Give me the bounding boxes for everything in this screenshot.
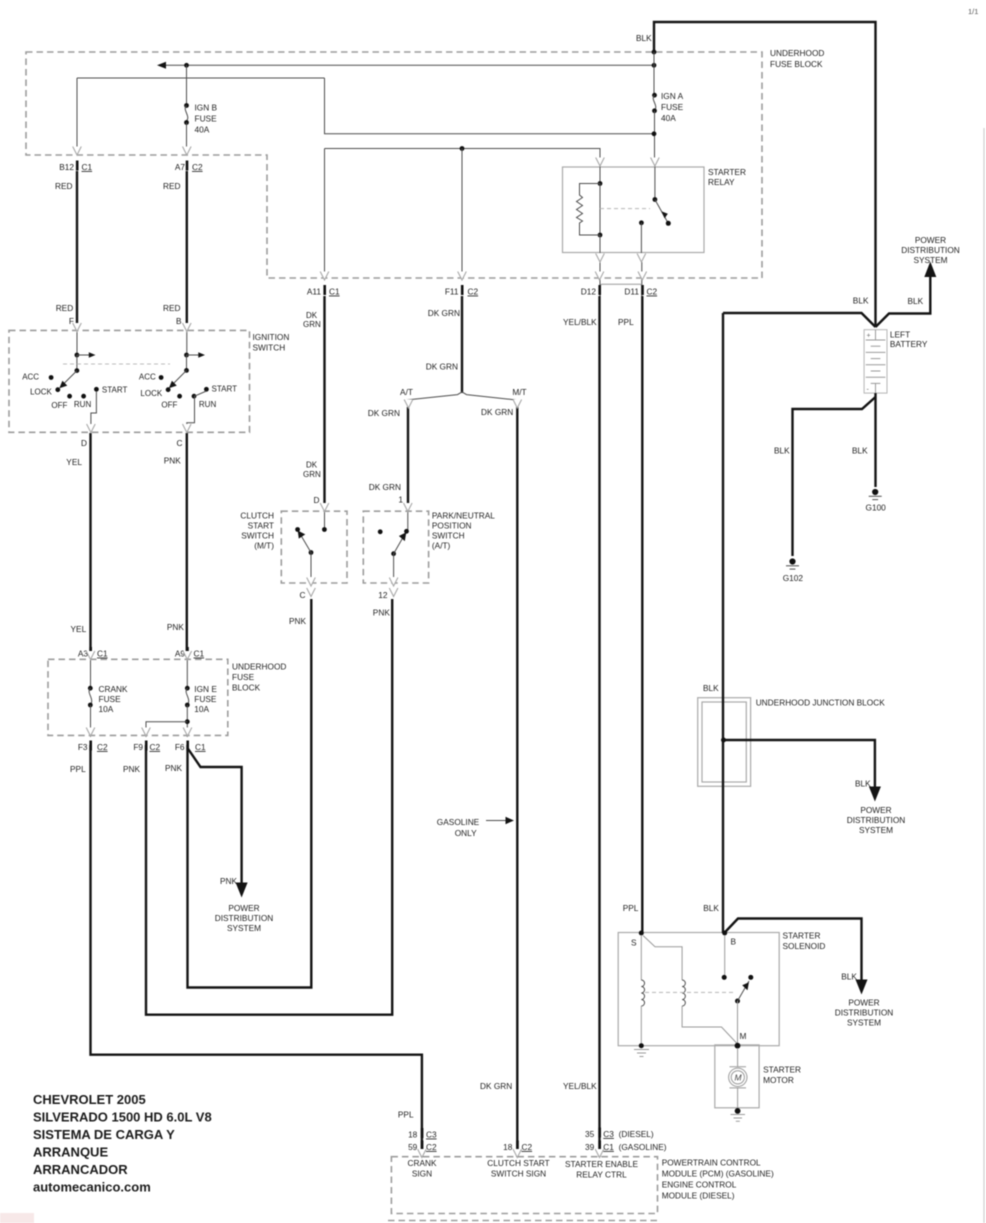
- solenoid ground (S coil): [639, 1043, 644, 1048]
- node BLK feed on dashed edge: [652, 50, 657, 55]
- svg-text:RED: RED: [163, 303, 181, 313]
- node feed bus tap: [652, 63, 657, 68]
- arrow M/T tip: [513, 400, 522, 409]
- svg-text:PARK/NEUTRAL: PARK/NEUTRAL: [432, 511, 495, 521]
- arrow A/T tip: [404, 400, 413, 409]
- svg-text:ENGINE CONTROL: ENGINE CONTROL: [662, 1180, 737, 1190]
- svg-text:STARTER: STARTER: [708, 167, 746, 177]
- arrow PCM crank sign entry: [418, 1149, 427, 1158]
- solenoid B terminal node: [722, 931, 727, 936]
- terminal F11 C2: [445, 285, 479, 297]
- svg-text:BLK: BLK: [841, 972, 857, 982]
- arrow F6 exit: [183, 728, 192, 737]
- wire YEL ignition D to fuse A3: [89, 433, 91, 652]
- svg-text:C2: C2: [426, 1142, 437, 1152]
- wire RED B12 to ignition F: [76, 171, 78, 324]
- svg-text:CRANK: CRANK: [407, 1158, 437, 1168]
- bottom-left artifact: [0, 1213, 34, 1223]
- svg-text:12: 12: [378, 590, 388, 600]
- svg-text:DK GRN: DK GRN: [480, 1081, 512, 1091]
- park/neutral position switch box (A/T): [363, 511, 428, 583]
- svg-text:DK GRN: DK GRN: [368, 408, 400, 418]
- svg-text:RED: RED: [56, 303, 74, 313]
- arrow A3 entry: [86, 651, 95, 660]
- svg-text:BLK: BLK: [908, 296, 924, 306]
- svg-text:A7: A7: [175, 162, 186, 172]
- svg-text:BLK: BLK: [855, 779, 871, 789]
- svg-text:YEL: YEL: [66, 457, 82, 467]
- wire BLK battery feed (top): [654, 22, 876, 327]
- svg-text:BLK: BLK: [703, 903, 719, 913]
- svg-text:C2: C2: [468, 287, 479, 297]
- svg-text:PNK: PNK: [167, 622, 185, 632]
- svg-text:C2: C2: [522, 1142, 533, 1152]
- arrow clutch D entry: [320, 503, 329, 512]
- svg-text:D12: D12: [581, 287, 597, 297]
- wire DK GRN F11 down to A/T M/T split: [461, 296, 463, 393]
- svg-text:C1: C1: [82, 162, 93, 172]
- svg-text:BLK: BLK: [774, 446, 790, 456]
- svg-text:G100: G100: [866, 503, 887, 513]
- svg-text:M: M: [735, 1073, 743, 1083]
- svg-text:C2: C2: [97, 742, 108, 752]
- svg-text:SYSTEM: SYSTEM: [227, 923, 261, 933]
- svg-text:DK GRN: DK GRN: [428, 308, 460, 318]
- wire PNK F9 to park/neutral 12: [146, 599, 392, 1015]
- arrow F11 exit: [458, 272, 467, 281]
- svg-text:FUSE: FUSE: [99, 694, 122, 704]
- svg-text:PNK: PNK: [123, 764, 141, 774]
- svg-text:(M/T): (M/T): [254, 541, 274, 551]
- svg-text:PPL: PPL: [398, 1110, 414, 1120]
- svg-text:CLUTCH START: CLUTCH START: [487, 1158, 549, 1168]
- svg-text:PNK: PNK: [373, 608, 391, 618]
- node junction block tap: [721, 738, 726, 743]
- svg-text:DISTRIBUTION: DISTRIBUTION: [215, 913, 274, 923]
- svg-text:CRANK: CRANK: [99, 684, 129, 694]
- svg-text:DK: DK: [306, 311, 318, 320]
- svg-text:SISTEMA DE CARGA Y: SISTEMA DE CARGA Y: [33, 1127, 175, 1142]
- wire BLK bus to battery positive (left): [723, 313, 876, 327]
- relay pins through boundary: [599, 262, 601, 296]
- svg-text:SYSTEM: SYSTEM: [859, 825, 893, 835]
- svg-text:C: C: [177, 438, 183, 448]
- ground G102: [783, 558, 804, 583]
- arrow ignition F entry: [73, 323, 82, 332]
- svg-text:BLK: BLK: [703, 683, 719, 693]
- terminal A9 C1: [175, 647, 205, 659]
- terminal 18 C2 (PCM middle): [503, 1141, 532, 1153]
- svg-text:RUN: RUN: [199, 400, 217, 409]
- arrow ignition B entry: [183, 323, 192, 332]
- arrow ignition D exit: [87, 424, 96, 433]
- svg-text:LOCK: LOCK: [140, 389, 162, 398]
- relay switch blade: [655, 200, 668, 223]
- wire BLK battery to power distribution (up arrow): [876, 276, 931, 327]
- starter relay box: [563, 167, 705, 253]
- svg-text:IGN E: IGN E: [194, 684, 217, 694]
- wire BLK battery negative to G100: [874, 393, 876, 487]
- svg-text:SYSTEM: SYSTEM: [913, 255, 947, 265]
- svg-text:DISTRIBUTION: DISTRIBUTION: [847, 815, 906, 825]
- arrow relay pin 85 bottom: [596, 254, 605, 263]
- svg-text:SWITCH: SWITCH: [432, 531, 465, 541]
- svg-text:STARTER: STARTER: [783, 931, 821, 941]
- solenoid contact from B: [724, 935, 726, 977]
- terminal 35 C3 (DIESEL): [585, 1128, 654, 1140]
- terminal 59 C2 (PCM): [408, 1141, 437, 1153]
- fuse CRANK 10A: [90, 660, 92, 688]
- ground G100: [866, 489, 887, 513]
- svg-text:18: 18: [408, 1130, 418, 1140]
- connector arrows (pass-through): [73, 147, 660, 1158]
- svg-text:STARTER ENABLE: STARTER ENABLE: [565, 1159, 638, 1169]
- node IGN E output to F9: [185, 719, 190, 724]
- solenoid M terminal node: [735, 1043, 741, 1049]
- terminal F3 C2: [78, 741, 108, 753]
- wire RED A7 to ignition B: [186, 171, 188, 324]
- svg-text:SWITCH: SWITCH: [241, 531, 274, 541]
- terminal D11 C2: [624, 285, 657, 297]
- svg-text:LEFT: LEFT: [890, 330, 910, 340]
- relay coil to switch linkage: [600, 208, 650, 210]
- terminal A11 C1: [307, 285, 340, 297]
- clutch start switch internals: [295, 511, 327, 577]
- wire BLK solenoid B branch to power distribution (down arrow): [725, 919, 862, 981]
- terminal A7 C2: [175, 161, 203, 173]
- svg-text:RUN: RUN: [74, 400, 92, 409]
- arrow A11 exit: [320, 272, 329, 281]
- svg-text:IGN B: IGN B: [195, 103, 218, 113]
- svg-text:C1: C1: [195, 742, 206, 752]
- solenoid coil 1 (pull-in): [640, 935, 642, 980]
- svg-text:ONLY: ONLY: [455, 828, 477, 838]
- svg-text:40A: 40A: [195, 125, 210, 135]
- svg-text:PNK: PNK: [220, 876, 238, 886]
- arrow D12 exit: [595, 272, 604, 281]
- starter motor box: [715, 1045, 759, 1108]
- arrow F9 exit: [142, 728, 151, 737]
- svg-text:(GASOLINE): (GASOLINE): [619, 1142, 667, 1152]
- svg-text:PPL: PPL: [618, 317, 634, 327]
- svg-text:POWER: POWER: [915, 235, 946, 245]
- svg-text:PNK: PNK: [164, 456, 182, 466]
- wire thin relay coil feed y=148.5: [325, 149, 601, 159]
- svg-text:POWERTRAIN CONTROL: POWERTRAIN CONTROL: [662, 1158, 761, 1168]
- svg-text:POSITION: POSITION: [432, 521, 472, 531]
- svg-text:DK GRN: DK GRN: [369, 482, 401, 492]
- node IGN A bottom junction: [652, 131, 657, 136]
- svg-text:GRN: GRN: [303, 470, 321, 479]
- solenoid switch blade: [735, 999, 740, 1004]
- svg-text:LOCK: LOCK: [30, 388, 52, 397]
- svg-text:YEL/BLK: YEL/BLK: [563, 1081, 597, 1091]
- svg-text:D: D: [81, 438, 87, 448]
- svg-text:STARTER: STARTER: [763, 1065, 801, 1075]
- svg-text:F9: F9: [133, 742, 143, 752]
- arrow PCM relay ctrl entry: [595, 1149, 604, 1158]
- svg-text:UNDERHOOD: UNDERHOOD: [232, 662, 286, 672]
- svg-text:SWITCH SIGN: SWITCH SIGN: [491, 1169, 546, 1179]
- svg-text:DK GRN: DK GRN: [481, 407, 513, 417]
- svg-text:BATTERY: BATTERY: [890, 339, 928, 349]
- svg-text:DISTRIBUTION: DISTRIBUTION: [901, 245, 960, 255]
- svg-text:DISTRIBUTION: DISTRIBUTION: [835, 1008, 894, 1018]
- svg-text:B: B: [176, 316, 182, 326]
- arrow relay pin 30 top: [651, 158, 660, 167]
- svg-text:YEL/BLK: YEL/BLK: [563, 317, 597, 327]
- svg-text:+: +: [867, 333, 871, 340]
- page edge line: [983, 128, 985, 1223]
- svg-text:M/T: M/T: [512, 387, 526, 397]
- svg-text:POWER: POWER: [228, 903, 259, 913]
- svg-text:F3: F3: [78, 742, 88, 752]
- svg-text:40A: 40A: [661, 113, 676, 123]
- wire PNK F6 to clutch switch C: [188, 599, 312, 988]
- svg-text:YEL: YEL: [71, 624, 87, 634]
- svg-text:D11: D11: [624, 287, 639, 297]
- terminal 39 C1 (GASOLINE): [585, 1141, 667, 1153]
- wire BLK vertical through junction block: [722, 313, 724, 933]
- underhood fuse block 2 box: [48, 659, 228, 735]
- svg-text:CLUTCH: CLUTCH: [240, 511, 274, 521]
- ignition switch box: [9, 330, 250, 432]
- svg-text:BLK: BLK: [853, 296, 869, 306]
- wire DK GRN A11 to clutch switch D: [323, 296, 325, 506]
- svg-text:1: 1: [398, 495, 403, 505]
- relay coil pin: [599, 166, 601, 184]
- svg-text:RELAY: RELAY: [708, 177, 735, 187]
- svg-text:ARRANQUE: ARRANQUE: [33, 1145, 108, 1160]
- svg-text:A11: A11: [307, 287, 322, 297]
- svg-text:F11: F11: [445, 287, 459, 297]
- terminal B12 C1: [59, 161, 92, 173]
- underhood fuse block (top, dashed outline): [26, 52, 762, 278]
- starter motor: [729, 1048, 747, 1121]
- svg-text:SILVERADO 1500 HD 6.0L V8: SILVERADO 1500 HD 6.0L V8: [33, 1110, 212, 1125]
- terminal D12: [581, 285, 601, 297]
- svg-text:C2: C2: [647, 287, 658, 297]
- svg-text:59: 59: [408, 1142, 418, 1152]
- svg-text:MODULE (DIESEL): MODULE (DIESEL): [662, 1191, 735, 1201]
- ignition switch linkage: [63, 363, 170, 365]
- terminal 18 C3 (PCM): [408, 1128, 437, 1140]
- wire PPL D11 to solenoid S: [641, 296, 643, 932]
- svg-text:FUSE: FUSE: [661, 102, 684, 112]
- svg-text:START: START: [102, 386, 128, 395]
- svg-text:C2: C2: [192, 162, 203, 172]
- svg-text:C: C: [300, 590, 306, 600]
- svg-text:RED: RED: [55, 181, 73, 191]
- connector C2 bracket D12-D11: [600, 284, 642, 291]
- svg-text:MODULE (PCM) (GASOLINE): MODULE (PCM) (GASOLINE): [662, 1169, 774, 1179]
- terminal F9 C2: [133, 741, 160, 753]
- fuse IGN A 40A: [652, 52, 683, 158]
- svg-text:BLK: BLK: [636, 33, 652, 43]
- svg-text:FUSE BLOCK: FUSE BLOCK: [770, 59, 823, 69]
- svg-text:IGN A: IGN A: [661, 91, 684, 101]
- svg-text:A3: A3: [78, 649, 89, 659]
- wire thin IGN A output to B12 feed: [77, 77, 325, 79]
- svg-text:D: D: [314, 495, 320, 505]
- wire thin feed bus y=65 with left arrow: [161, 64, 654, 66]
- starter relay internals: [577, 166, 671, 296]
- wire PPL F3 to PCM crank sign: [91, 745, 422, 1157]
- svg-text:automecanico.com: automecanico.com: [33, 1180, 151, 1195]
- svg-text:UNDERHOOD: UNDERHOOD: [770, 48, 824, 58]
- svg-text:IGNITION: IGNITION: [253, 332, 290, 342]
- arrow A9 entry: [183, 651, 192, 660]
- svg-text:ACC: ACC: [139, 373, 156, 382]
- svg-text:ACC: ACC: [22, 373, 39, 382]
- svg-text:GASOLINE: GASOLINE: [437, 817, 480, 827]
- svg-text:SYSTEM: SYSTEM: [847, 1018, 881, 1028]
- svg-text:SOLENOID: SOLENOID: [783, 941, 826, 951]
- underhood junction block: [698, 698, 751, 787]
- svg-text:FUSE: FUSE: [232, 672, 255, 682]
- svg-text:OFF: OFF: [51, 401, 67, 410]
- svg-text:S: S: [631, 938, 637, 948]
- svg-text:POWER: POWER: [860, 805, 891, 815]
- svg-text:MOTOR: MOTOR: [763, 1075, 794, 1085]
- svg-text:PNK: PNK: [289, 616, 307, 626]
- svg-text:GRN: GRN: [303, 320, 321, 329]
- svg-text:C3: C3: [603, 1129, 614, 1139]
- svg-text:BLK: BLK: [852, 446, 868, 456]
- svg-text:SWITCH: SWITCH: [253, 343, 286, 353]
- clutch start switch box (M/T): [281, 511, 347, 583]
- svg-text:PPL: PPL: [70, 764, 86, 774]
- arrow ignition C exit: [183, 424, 192, 433]
- arrow relay pin 87 bottom: [637, 254, 646, 263]
- terminal A3 C1: [78, 647, 108, 659]
- arrow A7 exit: [183, 147, 192, 156]
- ignition switch internals (right bank): [139, 331, 237, 425]
- arrow clutch C exit: [307, 578, 316, 587]
- solenoid coil 2 (hold-in): [643, 936, 682, 981]
- powertrain control module box (PCM): [391, 1157, 657, 1214]
- svg-text:10A: 10A: [194, 704, 209, 714]
- svg-text:START: START: [212, 385, 238, 394]
- wire DK GRN M/T branch to PCM clutch start switch sign: [516, 407, 518, 1157]
- svg-text:UNDERHOOD JUNCTION BLOCK: UNDERHOOD JUNCTION BLOCK: [756, 698, 886, 708]
- arrow park/neutral 1 entry: [404, 503, 413, 512]
- arrow relay pin 86 top: [596, 158, 605, 167]
- fuse IGN E 10A: [186, 660, 188, 688]
- arrow B12 exit: [73, 147, 82, 156]
- svg-text:START: START: [248, 521, 274, 531]
- arrow F3 exit: [86, 728, 95, 737]
- svg-text:(A/T): (A/T): [432, 541, 451, 551]
- wire DK GRN A/T branch to park/neutral 1: [407, 407, 409, 506]
- arrow park/neutral 12 exit: [389, 578, 398, 587]
- svg-text:(DIESEL): (DIESEL): [619, 1129, 654, 1139]
- ignition switch internals (left bank): [22, 331, 127, 425]
- park/neutral switch internals: [378, 511, 409, 577]
- arrow PCM clutch start entry: [513, 1149, 522, 1158]
- starter solenoid internals: [631, 931, 753, 1057]
- wire BLK battery negative branch to G102: [793, 397, 876, 556]
- svg-text:G102: G102: [783, 573, 804, 583]
- relay switch pin from IGN A: [654, 166, 656, 200]
- fuse block 2 internals: [88, 660, 217, 737]
- svg-text:C1: C1: [194, 649, 205, 659]
- svg-text:39: 39: [585, 1142, 595, 1152]
- svg-text:BLOCK: BLOCK: [232, 683, 261, 693]
- terminal F6 C1: [175, 741, 206, 753]
- svg-text:C2: C2: [150, 742, 161, 752]
- wire PNK F6 branch to power distribution (down arrow): [188, 748, 242, 883]
- svg-text:SIGN: SIGN: [412, 1169, 432, 1179]
- solenoid linkage: [645, 991, 735, 993]
- wire YEL/BLK D12 to PCM starter enable relay ctrl: [598, 296, 600, 1157]
- svg-text:F6: F6: [175, 742, 185, 752]
- svg-text:18: 18: [503, 1142, 513, 1152]
- svg-text:FUSE: FUSE: [195, 114, 218, 124]
- svg-text:PPL: PPL: [623, 903, 639, 913]
- svg-text:B12: B12: [59, 162, 74, 172]
- node A/T M/T split: [404, 392, 519, 400]
- svg-text:RED: RED: [163, 181, 181, 191]
- svg-text:C1: C1: [97, 649, 108, 659]
- left battery: [864, 330, 887, 394]
- title block: [33, 1092, 212, 1195]
- wire BLK junction block to power distribution (down arrow): [724, 740, 875, 787]
- node F11 tap: [460, 146, 465, 151]
- svg-text:A/T: A/T: [400, 387, 413, 397]
- svg-text:PNK: PNK: [165, 763, 183, 773]
- node IGN B feed: [184, 63, 189, 68]
- svg-text:C1: C1: [603, 1142, 614, 1152]
- svg-text:OFF: OFF: [161, 401, 177, 410]
- svg-text:DK GRN: DK GRN: [426, 362, 458, 372]
- relay resistor (parallel): [577, 184, 601, 236]
- relay output contact: [639, 220, 644, 225]
- svg-text:1/1: 1/1: [968, 7, 978, 16]
- arrow D11 exit: [638, 272, 647, 281]
- svg-text:C3: C3: [426, 1130, 437, 1140]
- svg-text:M: M: [740, 1031, 747, 1041]
- svg-text:CHEVROLET 2005: CHEVROLET 2005: [33, 1092, 146, 1107]
- svg-text:10A: 10A: [99, 704, 114, 714]
- svg-text:RELAY CTRL: RELAY CTRL: [576, 1170, 627, 1180]
- svg-text:35: 35: [585, 1129, 595, 1139]
- solenoid S terminal node: [639, 931, 644, 936]
- svg-text:POWER: POWER: [848, 998, 879, 1008]
- svg-text:B: B: [731, 937, 737, 947]
- starter solenoid box: [618, 933, 779, 1046]
- svg-text:ARRANCADOR: ARRANCADOR: [33, 1162, 128, 1177]
- wire PNK ignition C to fuse A9: [186, 433, 188, 652]
- svg-text:C1: C1: [329, 287, 340, 297]
- svg-text:DK: DK: [306, 461, 318, 470]
- fuse IGN B 40A: [184, 65, 217, 148]
- svg-text:FUSE: FUSE: [194, 694, 217, 704]
